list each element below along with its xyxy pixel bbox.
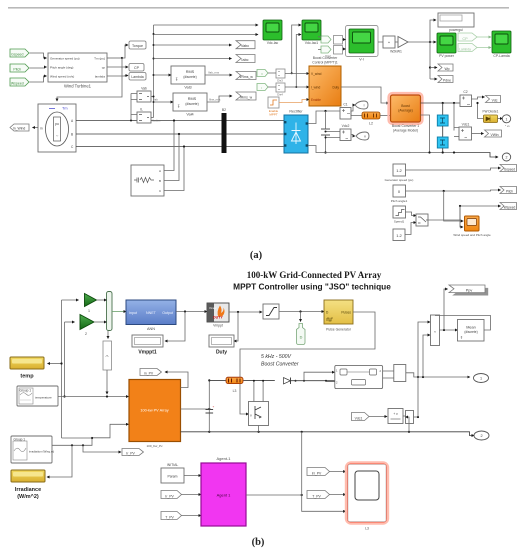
tag Vdc1 b — [352, 413, 370, 421]
svg-text:C2: C2 — [463, 90, 467, 94]
inductor L3 — [226, 377, 243, 393]
capacitor branch — [321, 111, 330, 154]
svg-text:irradiation (W/sq.m): irradiation (W/sq.m) — [29, 450, 54, 454]
tag m_PV — [140, 369, 162, 376]
wire tpv to agent — [182, 515, 202, 517]
selector Vab — [137, 87, 158, 103]
svg-text:DUTY: DUTY — [213, 316, 223, 320]
svg-text:2: 2 — [506, 156, 508, 160]
svg-text:Irr_PV: Irr_PV — [312, 471, 322, 475]
svg-text:Duty: Duty — [216, 350, 227, 356]
wire gain out — [408, 41, 436, 43]
wire to Gspeed — [406, 168, 501, 170]
mux b — [107, 292, 113, 331]
scope V-I — [349, 29, 374, 62]
block IGBT — [249, 402, 269, 432]
wire PV plus — [181, 408, 211, 410]
three-phase wire C — [76, 146, 284, 148]
svg-text:temperature: temperature — [35, 396, 52, 400]
svg-text:Duty: Duty — [332, 86, 339, 90]
wire Val4 to IRms — [207, 96, 232, 102]
wire to Irradiance — [47, 445, 72, 477]
selector Dis2 — [334, 46, 346, 55]
block Group1 temperature — [17, 386, 58, 406]
wire Val3 to VRms — [205, 71, 232, 76]
block Wind Turbine1 — [48, 53, 107, 89]
svg-text:Rectifier: Rectifier — [289, 110, 303, 114]
display Duty — [209, 335, 234, 356]
block Agent-1 — [201, 456, 246, 526]
svg-text:Val4: Val4 — [186, 113, 193, 117]
wire mean feedback — [435, 316, 491, 331]
svg-text:Generator speed (pu): Generator speed (pu) — [50, 57, 80, 61]
wire scope2 feeds — [291, 25, 301, 88]
svg-text:Agent 1: Agent 1 — [217, 493, 232, 498]
scope Vdc-Iac1 — [302, 20, 321, 45]
svg-text:Vabc: Vabc — [241, 44, 249, 48]
selector Dis4 — [276, 83, 285, 97]
tag Pdne — [438, 76, 453, 83]
wire diode to boost — [291, 372, 335, 382]
block C2 — [460, 90, 472, 107]
block saturation — [263, 304, 279, 319]
block Rectifier — [284, 110, 308, 154]
svg-text:CP: CP — [462, 37, 468, 41]
svg-text:Vdc: Vdc — [492, 99, 498, 103]
svg-text:Wspeed: Wspeed — [11, 82, 24, 86]
block temp — [10, 357, 44, 380]
wire Vmppt out — [229, 311, 262, 313]
port 1 oval b — [474, 374, 489, 383]
tag Gspeed goto — [500, 165, 517, 172]
wire to Ppv tag — [444, 289, 448, 330]
svg-text:Vdc-Iac: Vdc-Iac — [267, 41, 279, 45]
goto T block — [103, 331, 112, 395]
port 1 circle — [498, 115, 511, 128]
tag Lambda — [129, 73, 146, 81]
wire Vdc1 to VWin — [472, 133, 484, 135]
wire top feed to V-I — [318, 37, 321, 50]
top page rule — [8, 7, 509, 9]
svg-text:L3: L3 — [365, 527, 369, 531]
svg-text:↧: ↧ — [175, 77, 178, 82]
svg-text:2: 2 — [480, 434, 482, 438]
bus B2 — [222, 108, 227, 153]
dc link vertical cap — [204, 379, 215, 432]
tag Lambda faded — [458, 44, 477, 52]
tag VWin — [485, 130, 502, 137]
wire cap to Vdc2 — [325, 131, 341, 139]
wire rect minus rail — [308, 146, 454, 153]
svg-text:(discrete): (discrete) — [185, 102, 198, 106]
svg-text:Boost: Boost — [401, 104, 410, 108]
svg-text:*: * — [388, 41, 390, 46]
svg-text:Pitch angle1: Pitch angle1 — [391, 199, 408, 203]
wire RLC taps — [164, 119, 185, 190]
svg-text:Vmppt1: Vmppt1 — [138, 350, 157, 356]
svg-text:T_PV: T_PV — [312, 494, 321, 498]
selector IL — [137, 108, 161, 124]
svg-text:1: 1 — [88, 309, 90, 313]
meas v oval — [356, 132, 369, 140]
svg-text:Input: Input — [129, 311, 137, 315]
wire pulse to gate — [240, 312, 375, 414]
wire Tm to machine — [57, 58, 122, 101]
scope Wind speed and Pitch angle — [453, 216, 491, 237]
wire rect plus rail — [308, 110, 340, 124]
block Speed1 ramp — [393, 206, 406, 224]
wire bus to Val3 — [154, 74, 172, 76]
svg-text:W2kW1: W2kW1 — [390, 50, 402, 54]
inductor L2 — [351, 111, 380, 126]
svg-text:Pulses: Pulses — [341, 311, 351, 315]
title line1 — [247, 270, 382, 280]
svg-text:powergui: powergui — [449, 28, 463, 32]
svg-text:temp: temp — [20, 374, 34, 380]
svg-text:(Average): (Average) — [398, 109, 412, 113]
wire CP to scope — [477, 36, 491, 38]
label (b) — [252, 537, 265, 548]
wire mux out — [440, 329, 458, 331]
wire sat out — [279, 310, 324, 312]
tag Wspeed goto — [500, 203, 517, 210]
wire machine m to tag — [33, 127, 39, 129]
svg-text:Pdne: Pdne — [443, 79, 451, 83]
wire tpv to L3 — [330, 494, 346, 496]
mux vdc — [403, 411, 419, 424]
wire irpv to agent — [182, 494, 202, 496]
wire gain1 to mux — [97, 299, 107, 301]
svg-text:100_Kw_Pv: 100_Kw_Pv — [146, 444, 163, 448]
scope PV power — [437, 33, 456, 58]
wire Wspeed to WT — [30, 76, 47, 82]
svg-text:5 kHz - 500V: 5 kHz - 500V — [261, 354, 292, 360]
svg-text:V_wind: V_wind — [311, 72, 322, 76]
block powergui — [438, 13, 474, 32]
wire v1 join — [62, 437, 93, 439]
svg-text:Irradiance: Irradiance — [15, 487, 41, 493]
diode b — [284, 378, 297, 385]
svg-text:Output: Output — [162, 311, 173, 315]
wire mux to ANN — [112, 311, 126, 313]
tag Pitch goto — [500, 187, 517, 194]
block Vdc1a — [454, 103, 472, 140]
svg-text:Ir_PV: Ir_PV — [165, 494, 174, 498]
tag T_PV L3 — [307, 491, 330, 499]
block Vdc2 — [340, 124, 351, 141]
IGBT cyan 2 — [437, 126, 448, 154]
vertical v2 — [63, 322, 74, 398]
block Boost Average — [389, 93, 423, 133]
svg-text:B: B — [71, 133, 73, 137]
svg-text:↧: ↧ — [460, 336, 463, 340]
block Param INITIAL — [161, 463, 184, 483]
svg-text:VWin: VWin — [490, 133, 498, 137]
label (a) — [250, 250, 263, 261]
wire boost lower-right — [421, 115, 431, 154]
tag m_Wind — [10, 124, 29, 131]
tag Dis3 — [257, 70, 268, 77]
svg-text:Wind speed and Pitch angle: Wind speed and Pitch angle — [453, 233, 491, 237]
mux after boost — [383, 365, 470, 382]
block ANN — [126, 300, 176, 331]
svg-text:pu: pu — [55, 122, 59, 126]
block product W2kW — [383, 36, 395, 48]
svg-text:Boost Converter 1: Boost Converter 1 — [392, 124, 419, 128]
svg-text:D: D — [300, 336, 303, 340]
svg-text:Pitch angle (deg): Pitch angle (deg) — [50, 66, 73, 70]
wire Dis3 to MPPT — [268, 72, 309, 75]
svg-text:Agent-1: Agent-1 — [216, 456, 231, 461]
wire Dis4 to MPPT — [268, 86, 309, 88]
svg-text:(W/m^2): (W/m^2) — [17, 494, 39, 500]
svg-text:RMS: RMS — [188, 97, 197, 101]
wire to Vmppt1 display — [165, 312, 185, 342]
block plus v — [388, 409, 403, 424]
block Pulse Generator — [324, 300, 353, 332]
block Irradiance — [11, 470, 45, 500]
wire C2 to Vdc tag — [472, 97, 485, 99]
svg-text:Gspeed: Gspeed — [504, 168, 515, 172]
svg-text:B: B — [159, 179, 161, 183]
svg-text:m_Wind: m_Wind — [13, 127, 26, 131]
wire switch to Wspeed — [428, 205, 501, 220]
wire gain2 to mux — [94, 321, 107, 323]
selector Dis3 — [276, 69, 285, 83]
svg-text:C1: C1 — [343, 103, 347, 107]
wire PV minus rail — [181, 431, 475, 436]
svg-text:Gspeed: Gspeed — [11, 53, 23, 57]
wire to IrPV tag — [83, 445, 121, 452]
svg-text:PV power: PV power — [439, 54, 455, 58]
svg-text:Lambda: Lambda — [131, 75, 143, 79]
const 1.2 b — [393, 229, 405, 241]
wire to Pitch tag — [406, 190, 501, 192]
svg-text:↧: ↧ — [177, 104, 180, 109]
svg-text:Dis2: Dis2 — [325, 54, 331, 58]
svg-text:MPPT Controller using "JSO": MPPT Controller using "JSO" technique — [233, 282, 391, 292]
svg-text:2: 2 — [85, 332, 87, 336]
wire MPPT duty down — [341, 87, 389, 103]
svg-text:+: + — [213, 405, 215, 409]
wire C1 to oval to boost — [351, 105, 355, 111]
mux Ppv — [431, 315, 440, 346]
block boost bridge — [335, 365, 383, 388]
svg-text:Lambda: Lambda — [459, 47, 471, 51]
wire down branch — [302, 432, 346, 512]
tag Vabc — [236, 41, 255, 49]
svg-text:B2: B2 — [222, 108, 226, 112]
title line2 — [233, 282, 391, 292]
diode FW branch — [476, 102, 483, 119]
three-phase wire B — [76, 133, 284, 135]
svg-text:Vmear: Vmear — [209, 306, 217, 310]
block RMS Val4 — [173, 93, 207, 117]
svg-text:Pitch: Pitch — [506, 190, 513, 194]
svg-text:Pitch: Pitch — [13, 68, 21, 72]
port 2 circle — [453, 151, 511, 161]
tag T_PV agent — [161, 512, 182, 520]
svg-text:NNET: NNET — [146, 311, 157, 315]
wire Vabc tag — [154, 44, 232, 46]
svg-text:Iline_rms: Iline_rms — [209, 98, 221, 102]
wire scope feeds — [444, 191, 464, 227]
svg-text:v: v — [364, 135, 366, 139]
svg-text:Vmppt: Vmppt — [213, 324, 223, 328]
tag Dis4 — [257, 84, 268, 91]
svg-text:L2: L2 — [369, 122, 373, 126]
svg-text:1: 1 — [506, 117, 508, 121]
wire bus to Val4 — [154, 101, 174, 103]
tag Ppv — [449, 285, 488, 296]
svg-text:Iabc: Iabc — [241, 58, 248, 62]
switch — [405, 212, 428, 235]
wire irradiation line — [52, 424, 129, 446]
svg-text:(Average Model): (Average Model) — [393, 129, 418, 133]
wire to Duty display — [234, 312, 238, 341]
svg-text:Pulse Generator: Pulse Generator — [326, 328, 352, 332]
svg-text:1: 1 — [480, 377, 482, 381]
wire to scope1 port1 — [154, 24, 259, 26]
selector Dis1 — [334, 36, 346, 45]
wire selector taps — [130, 94, 137, 122]
tag Irr_PV L3 — [307, 468, 330, 476]
tag Dis2 — [321, 46, 331, 58]
wire agent out — [246, 494, 303, 496]
svg-text:100-kw PV Array: 100-kw PV Array — [140, 409, 168, 413]
block RMS Val3 — [171, 66, 205, 90]
block C1 — [340, 103, 351, 120]
svg-text:IRms_w: IRms_w — [240, 95, 253, 99]
svg-text:Wind speed (m/s): Wind speed (m/s) — [50, 75, 74, 79]
tag Gspeed — [10, 49, 29, 57]
const 0 pitch — [391, 185, 408, 203]
svg-text:Dis3: Dis3 — [277, 79, 283, 83]
wire to powergui — [430, 20, 436, 42]
const 1.2 gen speed — [385, 164, 414, 182]
svg-text:100-kW Grid-Connected PV Array: 100-kW Grid-Connected PV Array — [247, 270, 382, 280]
wire temperature line — [58, 395, 129, 397]
svg-text:Vab_rms: Vab_rms — [208, 71, 220, 75]
scope Vdc-Iac — [263, 20, 282, 45]
wire to scope1 port2 — [154, 34, 259, 36]
tag Dis1 — [321, 36, 331, 43]
svg-text:CP: CP — [134, 66, 140, 70]
svg-text:Control (MPPT)1: Control (MPPT)1 — [312, 61, 338, 65]
svg-text:Val3: Val3 — [184, 86, 191, 90]
svg-text:Tm: Tm — [62, 107, 67, 111]
svg-text:T_PV: T_PV — [165, 515, 174, 519]
svg-text:FW Diode1: FW Diode1 — [483, 110, 499, 114]
tag CP faded — [458, 33, 477, 41]
tag Ir_PV agent — [161, 491, 182, 499]
svg-text:L3: L3 — [233, 389, 237, 393]
svg-text:VRms_w: VRms_w — [239, 75, 253, 79]
gain 2 — [80, 315, 94, 337]
svg-text:* vs: * vs — [505, 124, 510, 128]
svg-text:1.2: 1.2 — [396, 233, 402, 238]
wire Tm out — [107, 45, 128, 59]
svg-text:I_wind: I_wind — [311, 86, 321, 90]
block Mean — [458, 320, 485, 342]
block Boost Converter Control MPPT — [309, 56, 341, 106]
tag Pitch — [10, 64, 29, 72]
port 2 oval b — [474, 431, 489, 440]
wire Vdc1 to pv block — [369, 416, 387, 418]
svg-text:IL_line: IL_line — [153, 119, 162, 123]
tag Ir_PV b — [122, 449, 144, 456]
meas i oval — [355, 101, 368, 109]
svg-text:(discrete): (discrete) — [464, 330, 477, 334]
svg-text:Wp: Wp — [444, 67, 449, 71]
wire temp feed — [48, 363, 62, 365]
wire L2 to boost — [380, 115, 390, 117]
tag IRms — [236, 92, 256, 100]
wire boost top rail — [421, 102, 461, 104]
wire Gspeed to WT — [30, 53, 47, 58]
wire Iabc tag — [154, 58, 232, 60]
svg-text:A: A — [159, 169, 161, 173]
block FW Diode1 — [483, 110, 499, 123]
gain W2kW1 — [390, 37, 408, 54]
tag VRms — [236, 72, 256, 80]
svg-text:Boost Converter: Boost Converter — [261, 362, 299, 368]
svg-text:Ir_PV: Ir_PV — [126, 451, 135, 455]
wire irrpv to L3 — [330, 471, 346, 473]
svg-text:Wind Turbine1: Wind Turbine1 — [64, 84, 92, 89]
block V-I frame — [346, 26, 379, 57]
svg-text:MPPT: MPPT — [269, 113, 278, 117]
svg-text:Ppv: Ppv — [466, 289, 473, 293]
tag CP — [129, 64, 144, 72]
svg-text:Speed1: Speed1 — [394, 220, 405, 224]
svg-text:RMS: RMS — [186, 70, 195, 74]
tag Torque — [129, 41, 146, 49]
IGBT cyan 1 — [437, 103, 448, 126]
tag Wspeed — [10, 78, 29, 86]
svg-text:+ v: + v — [393, 412, 398, 416]
svg-text:Vdc-Iac1: Vdc-Iac1 — [305, 41, 318, 45]
svg-text:Dis4: Dis4 — [277, 93, 283, 97]
wire ANN out — [176, 310, 207, 312]
svg-text:lambda: lambda — [95, 75, 105, 79]
tag Vdc — [486, 96, 501, 103]
scope CP-Lamda — [492, 31, 511, 58]
wire V-I to product — [378, 41, 398, 43]
svg-text:INITIAL: INITIAL — [167, 463, 179, 467]
wire param to agent — [184, 475, 201, 477]
wire Lambda to scope — [477, 47, 491, 49]
wire m out — [165, 372, 188, 388]
wire Wp Pdne — [429, 42, 437, 79]
svg-text:Tm (pu): Tm (pu) — [94, 57, 105, 61]
wire boost in2 — [326, 380, 335, 383]
three-phase wire A — [76, 120, 284, 122]
svg-text:CP-Lamda: CP-Lamda — [493, 54, 509, 58]
svg-text:Generator speed (pu): Generator speed (pu) — [385, 178, 414, 182]
wire Vdc2 to v — [351, 135, 355, 137]
verticals to Ppv mux — [406, 322, 431, 432]
wire enable to MPPT — [279, 100, 309, 103]
wire Pitch to WT — [30, 67, 47, 68]
machine block SG — [38, 104, 76, 152]
svg-text:Wspeed: Wspeed — [504, 206, 516, 210]
svg-text:Vdc1: Vdc1 — [355, 416, 363, 420]
block Enable MPPT step — [268, 97, 279, 117]
text 5kHz boost — [261, 354, 299, 368]
svg-text:m: m — [40, 127, 43, 131]
block Group1 irradiation — [11, 436, 54, 463]
